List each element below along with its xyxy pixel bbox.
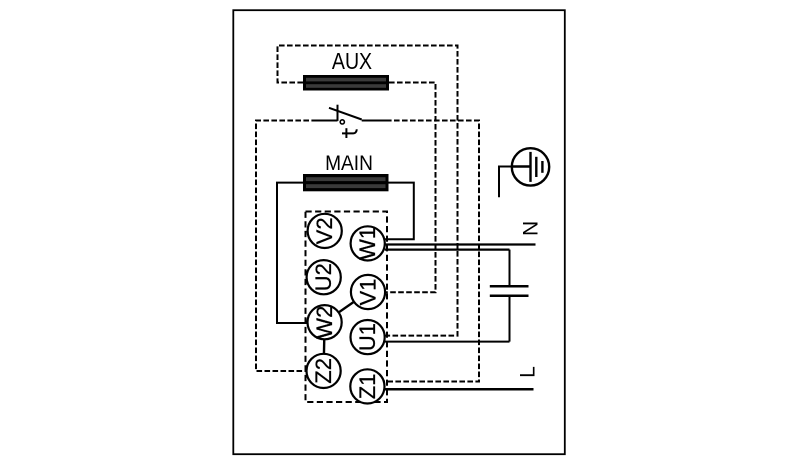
svg-text:MAIN: MAIN [325,152,373,175]
svg-text:N: N [519,221,542,236]
svg-text:V2: V2 [312,217,337,244]
svg-text:Z2: Z2 [311,358,336,384]
svg-text:W2: W2 [312,306,337,339]
svg-text:U1: U1 [355,323,380,351]
svg-text:AUX: AUX [332,49,372,75]
svg-text:W1: W1 [355,227,380,260]
svg-text:Z1: Z1 [355,374,380,400]
svg-text:U2: U2 [311,263,336,291]
svg-text:V1: V1 [355,279,380,306]
svg-text:L: L [517,366,540,378]
